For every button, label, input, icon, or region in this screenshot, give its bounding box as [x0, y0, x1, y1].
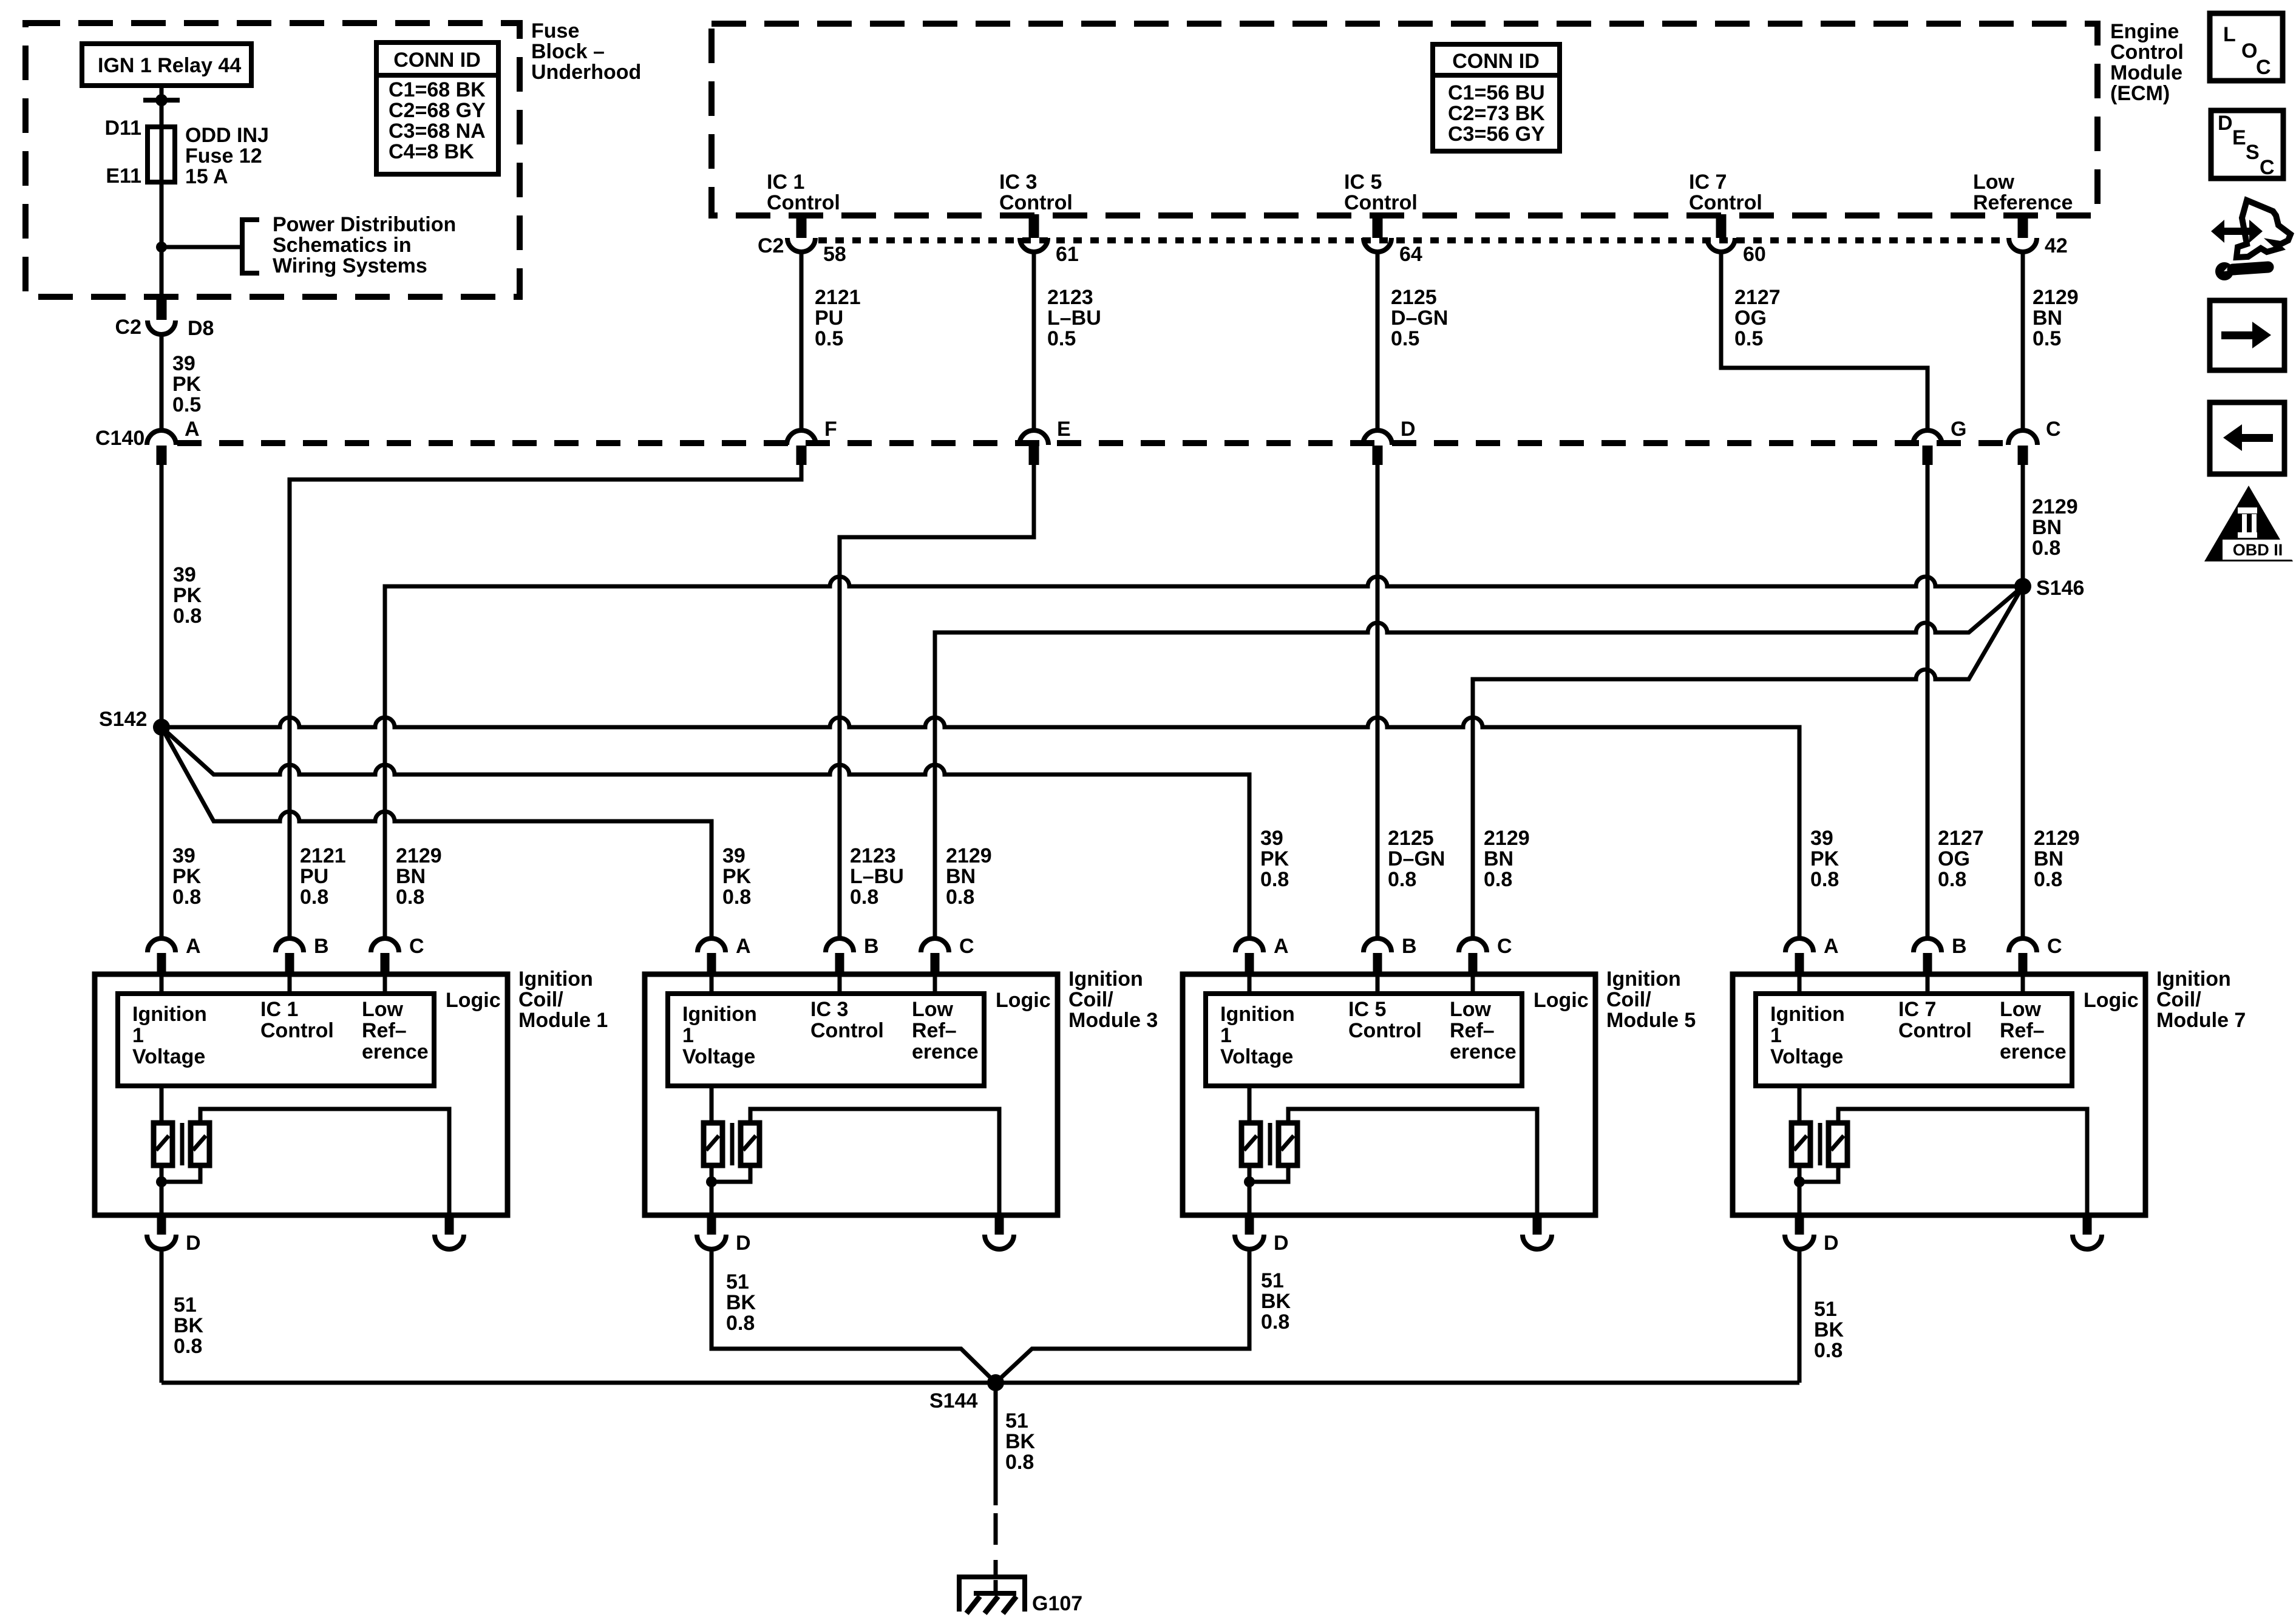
wire 2121 PU 0.5 (ECM 58 to C140 F)	[800, 252, 804, 431]
svg-text:Control: Control	[1348, 1019, 1422, 1042]
svg-text:PK: PK	[1810, 847, 1839, 870]
connector C140 pin G arc	[1913, 430, 1942, 445]
svg-text:0.8: 0.8	[850, 886, 878, 909]
svg-text:D: D	[736, 1232, 751, 1255]
splice S142 bus to module5 A	[161, 727, 1249, 938]
svg-text:Ignition: Ignition	[1068, 968, 1143, 991]
ignition coil/module 7 spark output pin connector	[2083, 1215, 2092, 1235]
connector C140 pin D arc	[1363, 430, 1392, 445]
svg-text:erence: erence	[2000, 1040, 2067, 1063]
svg-text:2129: 2129	[946, 844, 992, 867]
svg-text:BK: BK	[1814, 1318, 1844, 1341]
svg-text:Low: Low	[362, 998, 404, 1021]
svg-text:Ignition: Ignition	[1606, 968, 1681, 991]
ECM pin 64 stub	[1373, 214, 1383, 238]
ignition coil/module 5 core line	[1268, 1123, 1272, 1165]
wire 2127 OG 0.5 (ECM 60 jog to C140 G)	[1721, 252, 1927, 431]
svg-text:OG: OG	[1734, 307, 1767, 330]
wire to power distribution reference	[161, 245, 242, 249]
ignition coil/module 7 primary winding	[1792, 1123, 1810, 1165]
svg-text:Fuse: Fuse	[531, 19, 579, 42]
svg-text:E11: E11	[106, 164, 141, 188]
wire 51 BK 0.8 (module1 D to S144 bus)	[160, 1249, 164, 1383]
svg-text:0.8: 0.8	[1388, 868, 1416, 891]
svg-text:IC 5: IC 5	[1348, 998, 1386, 1021]
svg-text:58: 58	[823, 243, 846, 266]
svg-text:0.8: 0.8	[1810, 868, 1839, 891]
connector C140 pin E arc	[1019, 430, 1048, 445]
svg-text:D11: D11	[105, 117, 142, 140]
svg-text:Low: Low	[1973, 171, 2015, 194]
svg-text:51: 51	[1261, 1269, 1284, 1292]
svg-text:Control: Control	[810, 1019, 884, 1042]
svg-text:OG: OG	[1938, 847, 1970, 870]
svg-text:0.5: 0.5	[1391, 327, 1419, 350]
svg-text:C4=8 BK: C4=8 BK	[389, 140, 474, 163]
svg-text:0.5: 0.5	[815, 327, 843, 350]
svg-text:0.8: 0.8	[1260, 868, 1289, 891]
connector C140 pin A arc	[147, 430, 176, 445]
wire 2121 PU 0.8 (C140 F to module1 B)	[290, 465, 801, 938]
svg-text:15 A: 15 A	[185, 165, 228, 188]
svg-text:O: O	[2241, 39, 2257, 63]
icon forward arrow box	[2210, 300, 2284, 370]
svg-text:C: C	[2256, 56, 2271, 79]
wire 2123 L-BU 0.8 (C140 E to module3 B)	[840, 465, 1034, 938]
ignition coil/module 5 top pin B connector	[1364, 938, 1391, 952]
ignition coil/module 3 outer box	[645, 974, 1058, 1215]
svg-text:S142: S142	[99, 708, 147, 731]
svg-text:Control: Control	[1344, 191, 1418, 214]
icon back arrow box	[2210, 402, 2284, 474]
relay IGN 1 Relay 44 box	[82, 44, 251, 86]
svg-text:0.8: 0.8	[2034, 868, 2062, 891]
svg-text:C: C	[2260, 156, 2275, 179]
svg-text:1: 1	[1770, 1024, 1782, 1047]
power distribution reference bracket	[242, 220, 259, 273]
ignition coil/module 3 spark output pin connector	[995, 1215, 1004, 1235]
ECM pin 58 cup	[787, 238, 815, 252]
svg-text:Low: Low	[1450, 998, 1492, 1021]
ignition coil/module 7 secondary output wire	[1838, 1109, 2087, 1215]
icon OBD II triangle	[2204, 486, 2293, 561]
svg-text:B: B	[1952, 935, 1967, 958]
svg-text:42: 42	[2045, 234, 2068, 257]
ignition coil/module 5 logic inner box	[1206, 994, 1522, 1086]
ignition coil/module 3 logic inner box	[668, 994, 984, 1086]
svg-text:1: 1	[682, 1024, 694, 1047]
ignition coil/module 3 winding junction dot	[706, 1176, 717, 1187]
svg-text:Coil/: Coil/	[518, 988, 563, 1011]
ECM dashed enclosure	[712, 24, 2097, 215]
svg-text:2127: 2127	[1938, 827, 1984, 850]
ignition coil/module 5 bottom pin D connector	[1245, 1215, 1254, 1235]
ignition coil/module 1 winding junction dot	[156, 1176, 167, 1187]
svg-text:Logic: Logic	[446, 989, 501, 1012]
svg-text:BN: BN	[396, 865, 426, 888]
ignition coil/module 1 logic inner box	[118, 994, 434, 1086]
wire fuse to connector C2/D8	[160, 182, 164, 300]
svg-text:PU: PU	[300, 865, 328, 888]
ignition coil/module 5 top pin A connector	[1235, 938, 1263, 952]
splice S146 bus to module5 C	[1473, 586, 2023, 938]
splice S144 ground bus	[161, 1381, 1799, 1385]
svg-text:IC 3: IC 3	[999, 171, 1037, 194]
svg-text:Reference: Reference	[1973, 191, 2073, 214]
svg-text:Ignition: Ignition	[682, 1003, 757, 1026]
svg-text:IC 7: IC 7	[1898, 998, 1936, 1021]
svg-text:PK: PK	[172, 373, 202, 396]
ignition coil/module 3 bottom pin D connector	[707, 1215, 716, 1235]
ignition coil/module 5 spark output pin connector	[1533, 1215, 1542, 1235]
junction dot power distribution tap	[156, 242, 167, 253]
svg-text:C2: C2	[115, 316, 141, 339]
svg-text:Ref–: Ref–	[1450, 1019, 1495, 1042]
svg-text:D: D	[1824, 1232, 1839, 1255]
ignition coil/module 5 secondary winding	[1279, 1123, 1297, 1165]
wire through fuse	[160, 124, 164, 185]
connector table CONN ID (fuse block) header separator	[376, 73, 498, 78]
svg-text:(ECM): (ECM)	[2110, 82, 2170, 105]
svg-text:D: D	[1401, 418, 1416, 441]
svg-text:OBD II: OBD II	[2233, 541, 2283, 559]
svg-text:L–BU: L–BU	[1047, 307, 1101, 330]
svg-text:Ignition: Ignition	[1770, 1003, 1845, 1026]
connector C140 pin F arc	[787, 430, 816, 445]
ignition coil/module 3 top pin C connector	[921, 938, 949, 952]
svg-text:BK: BK	[1261, 1290, 1291, 1313]
splice S146 bus to module1 C	[385, 577, 2023, 938]
svg-text:erence: erence	[912, 1040, 979, 1063]
wire 2129 BN 0.5 (ECM 42 to C140 C)	[2021, 252, 2025, 431]
svg-text:0.5: 0.5	[1047, 327, 1076, 350]
svg-text:51: 51	[726, 1270, 749, 1293]
svg-text:Block –: Block –	[531, 40, 605, 63]
ignition coil/module 5 primary winding	[1241, 1123, 1260, 1165]
svg-text:BN: BN	[946, 865, 976, 888]
ignition coil/module 7 primary winding wire from logic box	[1798, 1086, 1802, 1123]
connector C140 pin C stub	[2018, 446, 2028, 465]
ignition coil/module 7 winding common wire	[1799, 1165, 1838, 1215]
svg-text:IC 7: IC 7	[1689, 171, 1727, 194]
svg-text:Ignition: Ignition	[2156, 968, 2231, 991]
ignition coil/module 1 secondary winding	[191, 1123, 209, 1165]
ignition coil/module 5 top pin C connector	[1459, 938, 1487, 952]
fuse ODD INJ Fuse 12 symbol	[148, 127, 175, 182]
svg-text:BN: BN	[1484, 847, 1513, 870]
ignition coil/module 7 secondary winding	[1829, 1123, 1847, 1165]
svg-text:Ref–: Ref–	[912, 1019, 957, 1042]
ECM pin 60 stub	[1716, 214, 1727, 238]
ignition coil/module 5 secondary output wire	[1288, 1109, 1537, 1215]
svg-text:Low: Low	[912, 998, 954, 1021]
svg-text:IC 1: IC 1	[767, 171, 804, 194]
svg-text:Module 3: Module 3	[1068, 1009, 1158, 1032]
icon DESC box	[2211, 110, 2283, 178]
ignition coil/module 1 outer box	[95, 974, 508, 1215]
svg-text:2123: 2123	[1047, 286, 1093, 309]
svg-text:B: B	[864, 935, 879, 958]
ECM pin 64 cup	[1364, 238, 1391, 252]
svg-text:CONN ID: CONN ID	[393, 49, 481, 72]
splice S144 junction dot	[987, 1374, 1004, 1391]
svg-text:1: 1	[132, 1024, 144, 1047]
svg-text:0.8: 0.8	[300, 886, 328, 909]
svg-text:Module 7: Module 7	[2156, 1009, 2246, 1032]
junction dot relay output	[155, 94, 168, 106]
svg-text:Coil/: Coil/	[1068, 988, 1113, 1011]
svg-text:D–GN: D–GN	[1391, 307, 1448, 330]
ignition coil/module 7 pin C lead into logic box	[2021, 974, 2025, 994]
svg-text:2129: 2129	[1484, 827, 1530, 850]
svg-text:erence: erence	[362, 1040, 429, 1063]
svg-text:A: A	[736, 935, 751, 958]
splice S142 bus to module7 A	[161, 717, 1799, 938]
wire 2125 D-GN 0.5 (ECM 64 to C140 D)	[1376, 252, 1380, 431]
ECM pin 42 cup	[2009, 238, 2037, 252]
svg-text:Engine: Engine	[2110, 20, 2179, 43]
splice S146 bus to module3 C	[935, 586, 2023, 938]
svg-text:A: A	[1824, 935, 1839, 958]
svg-text:0.8: 0.8	[173, 605, 202, 628]
svg-text:1: 1	[1220, 1024, 1232, 1047]
ignition coil/module 3 top pin B connector	[826, 938, 854, 952]
ignition coil/module 3 primary winding wire from logic box	[710, 1086, 714, 1123]
svg-text:51: 51	[1814, 1298, 1837, 1321]
svg-text:A: A	[185, 418, 200, 441]
ECM pin 61 stub	[1029, 214, 1039, 238]
svg-text:PK: PK	[722, 865, 752, 888]
svg-text:BN: BN	[2032, 516, 2062, 539]
svg-text:Voltage: Voltage	[1770, 1045, 1843, 1068]
ignition coil/module 7 core line	[1818, 1123, 1822, 1165]
svg-text:Logic: Logic	[2084, 989, 2139, 1012]
svg-text:C3=68 NA: C3=68 NA	[389, 120, 486, 143]
svg-text:C: C	[2046, 418, 2061, 441]
svg-text:C3=56 GY: C3=56 GY	[1448, 123, 1545, 146]
svg-text:Module 5: Module 5	[1606, 1009, 1696, 1032]
svg-text:39: 39	[1260, 827, 1283, 850]
svg-text:Control: Control	[2110, 41, 2184, 64]
ignition coil/module 5 pin A lead into logic box	[1248, 974, 1252, 994]
svg-text:D8: D8	[188, 317, 214, 340]
svg-text:60: 60	[1743, 243, 1766, 266]
svg-text:39: 39	[722, 844, 746, 867]
svg-text:Logic: Logic	[1533, 989, 1589, 1012]
ignition coil/module 3 secondary output wire	[750, 1109, 999, 1215]
svg-text:S: S	[2246, 141, 2260, 164]
ignition coil/module 1 top pin A connector	[148, 938, 175, 952]
ignition coil/module 3 pin A lead into logic box	[710, 974, 714, 994]
ECM connector C2 dotted line	[818, 237, 2008, 243]
wire dashed segment to ground G107	[994, 1513, 998, 1595]
ignition coil/module 5 pin C lead into logic box	[1471, 974, 1475, 994]
svg-text:0.5: 0.5	[2033, 327, 2061, 350]
ignition coil/module 3 pin B lead into logic box	[838, 974, 842, 994]
svg-text:2121: 2121	[300, 844, 346, 867]
svg-text:Control: Control	[1689, 191, 1762, 214]
connector C2/D8 stub	[157, 297, 167, 320]
svg-text:S144: S144	[929, 1389, 977, 1412]
ignition coil/module 3 primary winding	[704, 1123, 722, 1165]
svg-text:2121: 2121	[815, 286, 861, 309]
ignition coil/module 3 secondary winding	[741, 1123, 759, 1165]
wire 51 BK 0.8 (module3 D to S144)	[712, 1249, 996, 1383]
wire 51 BK 0.8 (module5 D to S144)	[996, 1249, 1249, 1383]
svg-text:D: D	[2218, 112, 2233, 135]
ignition coil/module 3 top pin A connector	[698, 938, 725, 952]
svg-text:64: 64	[1399, 243, 1422, 266]
ignition coil/module 7 pin A lead into logic box	[1798, 974, 1802, 994]
ground G107 symbol	[959, 1577, 1025, 1612]
ignition coil/module 7 winding junction dot	[1794, 1176, 1805, 1187]
svg-text:Ignition: Ignition	[518, 968, 593, 991]
svg-text:PK: PK	[1260, 847, 1289, 870]
svg-text:BK: BK	[726, 1291, 756, 1314]
svg-text:2129: 2129	[2034, 827, 2080, 850]
ignition coil/module 1 bottom pin D connector	[157, 1215, 166, 1235]
wire 39 PK 0.8 (C140 A to S142)	[160, 465, 164, 938]
svg-text:Ref–: Ref–	[362, 1019, 407, 1042]
ECM pin 42 stub	[2018, 214, 2028, 238]
svg-text:2129: 2129	[2033, 286, 2079, 309]
svg-text:39: 39	[1810, 827, 1833, 850]
wire relay output	[160, 86, 164, 127]
svg-text:F: F	[824, 418, 837, 441]
ignition coil/module 5 winding junction dot	[1244, 1176, 1255, 1187]
svg-text:C: C	[1497, 935, 1512, 958]
ignition coil/module 1 primary winding	[154, 1123, 172, 1165]
ignition coil/module 5 outer box	[1183, 974, 1595, 1215]
ignition coil/module 5 winding common wire	[1249, 1165, 1288, 1215]
svg-text:C: C	[409, 935, 424, 958]
svg-text:C2=68 GY: C2=68 GY	[389, 99, 486, 122]
svg-text:2127: 2127	[1734, 286, 1781, 309]
svg-text:Voltage: Voltage	[682, 1045, 755, 1068]
svg-text:BK: BK	[1005, 1430, 1036, 1453]
svg-text:Control: Control	[260, 1019, 334, 1042]
ECM pin 58 stub	[796, 214, 807, 238]
ignition coil/module 1 pin B lead into logic box	[288, 974, 292, 994]
svg-text:D: D	[186, 1232, 201, 1255]
svg-text:IC 5: IC 5	[1344, 171, 1382, 194]
svg-text:ODD INJ: ODD INJ	[185, 124, 269, 147]
svg-text:0.8: 0.8	[396, 886, 424, 909]
svg-text:2125: 2125	[1388, 827, 1434, 850]
wire 51 BK 0.8 (S144 to G107)	[994, 1383, 998, 1505]
svg-text:IC 1: IC 1	[260, 998, 298, 1021]
svg-text:Voltage: Voltage	[1220, 1045, 1293, 1068]
svg-text:PK: PK	[173, 584, 202, 607]
svg-text:BN: BN	[2033, 307, 2062, 330]
svg-text:Ignition: Ignition	[1220, 1003, 1295, 1026]
ECM pin 61 cup	[1020, 238, 1048, 252]
wire 2127 OG 0.8 (C140 G to module7 B)	[1926, 465, 1930, 938]
ECM pin 60 cup	[1707, 238, 1735, 252]
svg-text:E: E	[2232, 126, 2246, 149]
svg-text:Module 1: Module 1	[518, 1009, 608, 1032]
svg-text:IC 3: IC 3	[810, 998, 848, 1021]
icon LOC box	[2210, 13, 2283, 81]
svg-text:Voltage: Voltage	[132, 1045, 205, 1068]
ignition coil/module 1 winding common wire	[161, 1165, 200, 1215]
svg-text:C2=73 BK: C2=73 BK	[1448, 102, 1545, 125]
svg-text:Low: Low	[2000, 998, 2042, 1021]
svg-text:PU: PU	[815, 307, 843, 330]
svg-text:Logic: Logic	[996, 989, 1051, 1012]
svg-text:L–BU: L–BU	[850, 865, 904, 888]
wire 51 BK 0.8 (module7 D to S144 bus)	[1798, 1249, 1802, 1383]
svg-text:L: L	[2223, 23, 2236, 46]
svg-text:BK: BK	[174, 1314, 204, 1337]
svg-text:39: 39	[172, 844, 195, 867]
svg-text:Control: Control	[1898, 1019, 1972, 1042]
splice S146 junction dot	[2014, 578, 2031, 595]
svg-text:0.8: 0.8	[722, 886, 751, 909]
ignition coil/module 1 spark output pin connector	[445, 1215, 454, 1235]
svg-text:D–GN: D–GN	[1388, 847, 1445, 870]
connector C140 pin G stub	[1923, 446, 1933, 465]
svg-text:0.5: 0.5	[172, 393, 201, 416]
ignition coil/module 7 top pin B connector	[1914, 938, 1941, 952]
ignition coil/module 3 pin C lead into logic box	[933, 974, 937, 994]
ignition coil/module 1 top pin B connector	[276, 938, 304, 952]
connector table CONN ID (fuse block) box	[376, 42, 498, 174]
svg-text:Control: Control	[767, 191, 840, 214]
connector table CONN ID (ECM) box	[1433, 44, 1560, 151]
relay output T bar	[143, 98, 180, 103]
svg-text:S146: S146	[2036, 577, 2084, 600]
svg-text:CONN ID: CONN ID	[1452, 50, 1540, 73]
ignition coil/module 1 core line	[180, 1123, 185, 1165]
wire 39 PK 0.5 (C2/D8 to C140-A)	[160, 334, 164, 430]
ignition coil/module 1 pin A lead into logic box	[160, 974, 164, 994]
wire 2125 D-GN 0.8 (C140 D to module5 B)	[1376, 465, 1380, 938]
svg-text:B: B	[314, 935, 329, 958]
connector C140 dashed line	[177, 440, 2007, 446]
wire 2129 BN 0.8 (C140 C to splice S146)	[2021, 465, 2025, 586]
svg-text:0.8: 0.8	[946, 886, 974, 909]
svg-text:39: 39	[173, 563, 196, 586]
icon double arrow with wrench	[2211, 220, 2224, 243]
svg-text:0.8: 0.8	[172, 886, 201, 909]
svg-text:C140: C140	[95, 427, 144, 450]
svg-text:B: B	[1402, 935, 1417, 958]
svg-text:E: E	[1057, 418, 1071, 441]
svg-text:Ignition: Ignition	[132, 1003, 207, 1026]
svg-text:2125: 2125	[1391, 286, 1437, 309]
svg-text:Underhood: Underhood	[531, 61, 641, 84]
svg-text:61: 61	[1056, 243, 1079, 266]
svg-text:G107: G107	[1032, 1592, 1082, 1615]
svg-text:0.8: 0.8	[1814, 1339, 1843, 1362]
svg-text:0.8: 0.8	[1938, 868, 1966, 891]
svg-text:C2: C2	[758, 234, 784, 257]
svg-text:Ref–: Ref–	[2000, 1019, 2045, 1042]
ignition coil/module 7 pin B lead into logic box	[1926, 974, 1930, 994]
ignition coil/module 5 primary winding wire from logic box	[1248, 1086, 1252, 1123]
fuse block underhood dashed enclosure	[25, 23, 520, 297]
svg-text:Power Distribution: Power Distribution	[273, 213, 456, 236]
svg-text:39: 39	[172, 352, 195, 375]
ignition coil/module 1 top pin C connector	[371, 938, 399, 952]
ignition coil/module 5 pin B lead into logic box	[1376, 974, 1380, 994]
connector C140 pin D stub	[1373, 446, 1383, 465]
svg-text:0.8: 0.8	[1261, 1310, 1289, 1334]
connector C140 pin E stub	[1029, 446, 1039, 465]
svg-text:Control: Control	[999, 191, 1073, 214]
svg-text:G: G	[1951, 418, 1966, 441]
